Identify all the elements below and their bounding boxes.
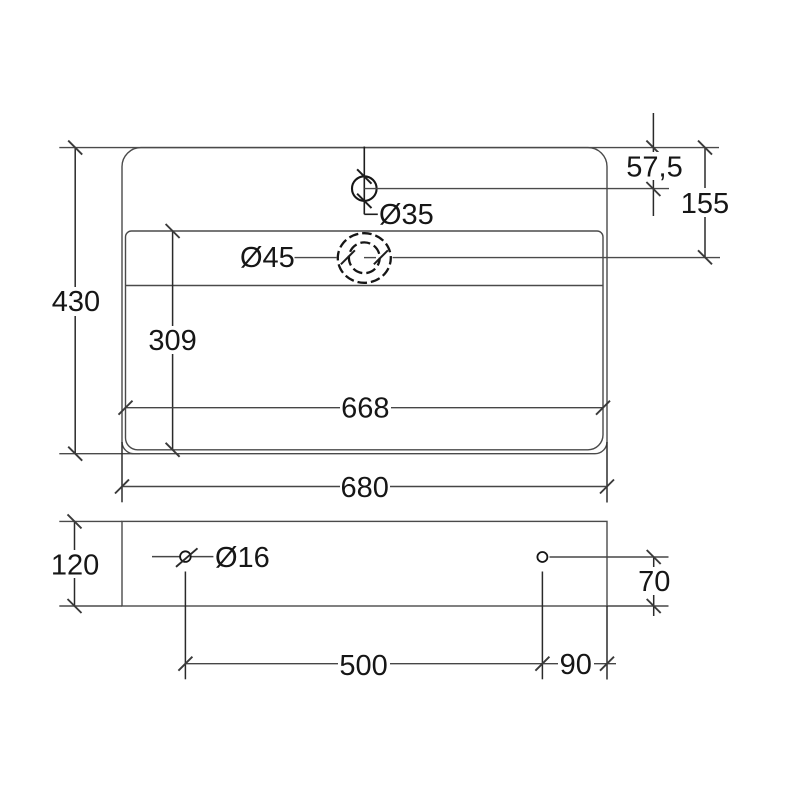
tick 155 bottom bbox=[698, 250, 712, 264]
svg-text:Ø16: Ø16 bbox=[215, 542, 270, 574]
label 120 bbox=[51, 550, 100, 578]
svg-text:668: 668 bbox=[341, 393, 389, 425]
tick 57,5 bottom bbox=[646, 182, 660, 196]
svg-text:309: 309 bbox=[148, 325, 196, 357]
fixing hole leader line (left) bbox=[152, 556, 213, 558]
tick 57,5 top bbox=[646, 141, 660, 155]
tick faucet bottom bbox=[357, 194, 371, 208]
faucet hole centerline horizontal (57,5 extension) bbox=[364, 188, 669, 190]
faucet hole circle Ø35 bbox=[352, 176, 377, 201]
label 309 bbox=[149, 326, 197, 354]
drain centerline segments (155 extension) bbox=[295, 257, 337, 259]
dimension 680 line bbox=[122, 486, 607, 488]
side view bottom edge extension (left) bbox=[59, 605, 122, 607]
tick faucet top bbox=[357, 169, 371, 183]
dimension 70 line bbox=[653, 557, 655, 616]
fixing hole right centerline (70 extension) bbox=[550, 556, 669, 558]
drain hole dashed circle Ø45 bbox=[349, 242, 380, 273]
side view body bbox=[122, 521, 607, 606]
dimension 155 line bbox=[704, 148, 706, 258]
tick 70 bottom bbox=[647, 599, 661, 613]
label 668 bbox=[340, 394, 391, 422]
svg-text:70: 70 bbox=[638, 566, 670, 598]
label 430 bbox=[52, 287, 100, 316]
fixing hole left extension down bbox=[184, 572, 186, 680]
tick 430 bottom bbox=[68, 447, 82, 461]
faucet hole centerline vertical bbox=[363, 147, 365, 215]
label 90 bbox=[558, 651, 594, 679]
svg-text:57,5: 57,5 bbox=[626, 152, 682, 184]
tick 430 top bbox=[68, 141, 82, 155]
svg-text:680: 680 bbox=[341, 472, 389, 504]
tick 70 top bbox=[647, 550, 661, 564]
dimension 430 line bbox=[74, 148, 76, 454]
tick 155 top bbox=[698, 141, 712, 155]
tick 500/90 middle bbox=[535, 657, 549, 671]
tick fixing hole left bbox=[176, 548, 198, 567]
svg-text:Ø35: Ø35 bbox=[379, 199, 434, 231]
tick 309 bottom bbox=[166, 443, 180, 457]
dimension 120 line bbox=[74, 521, 76, 606]
basin outer outline (top view) bbox=[122, 148, 607, 454]
label 57,5 bbox=[625, 152, 685, 180]
svg-text:120: 120 bbox=[51, 549, 99, 581]
tick 500 left bbox=[178, 657, 192, 671]
svg-text:155: 155 bbox=[681, 188, 729, 220]
right edge extension line (680) bbox=[606, 442, 608, 503]
tick 680 left bbox=[115, 480, 129, 494]
side view right edge extension down bbox=[606, 606, 608, 680]
side view top edge extension (left) bbox=[59, 520, 122, 522]
svg-text:430: 430 bbox=[52, 286, 100, 318]
label 680 bbox=[340, 473, 390, 501]
tick drain left bbox=[341, 250, 355, 264]
dimension 57,5 line bbox=[652, 113, 654, 216]
left edge extension line (680) bbox=[121, 442, 123, 502]
dimension 500 / 90 line bbox=[185, 663, 616, 665]
bottom edge extension line (left) bbox=[59, 453, 140, 455]
label 500 bbox=[338, 651, 390, 679]
tick 668 right bbox=[596, 401, 610, 415]
label 155 bbox=[682, 188, 728, 217]
basin inner bowl outline bbox=[126, 231, 604, 450]
fixing hole right extension down bbox=[541, 572, 543, 680]
drain recess dashed circle bbox=[338, 233, 391, 283]
side view bottom edge extension (right) bbox=[607, 605, 669, 607]
fixing hole right bbox=[537, 552, 547, 562]
dimension 309 line bbox=[172, 231, 174, 450]
dimension 668 line bbox=[126, 407, 604, 409]
fixing hole left Ø16 bbox=[180, 551, 191, 562]
top edge extension line bbox=[59, 147, 719, 149]
tick 680 right bbox=[600, 480, 614, 494]
svg-text:90: 90 bbox=[560, 649, 592, 681]
tick drain right bbox=[374, 250, 388, 264]
tick 90 right bbox=[600, 657, 614, 671]
tick 120 bottom bbox=[68, 599, 82, 613]
svg-text:500: 500 bbox=[339, 650, 387, 682]
label 70 bbox=[638, 567, 671, 595]
tick 120 top bbox=[68, 514, 82, 528]
bowl back ledge line bbox=[126, 285, 604, 287]
tick 668 left bbox=[119, 401, 133, 415]
faucet hole leader to label bbox=[364, 213, 378, 215]
tick 309 top bbox=[166, 224, 180, 238]
svg-text:Ø45: Ø45 bbox=[240, 242, 295, 274]
